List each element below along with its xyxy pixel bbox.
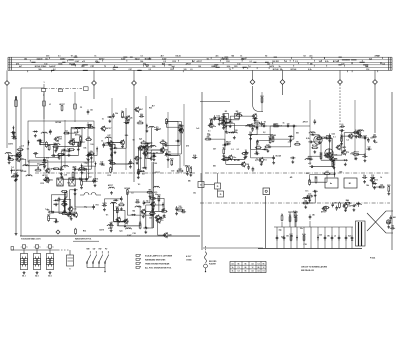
svg-text:8,2k: 8,2k <box>325 61 329 63</box>
svg-text:0.1: 0.1 <box>208 131 211 133</box>
svg-text:a12: a12 <box>288 141 291 143</box>
svg-text:56k: 56k <box>150 143 153 145</box>
svg-text:R12: R12 <box>83 230 86 232</box>
svg-text:22n: 22n <box>50 180 53 182</box>
svg-text:100: 100 <box>39 58 42 60</box>
svg-text:AF117: AF117 <box>185 164 190 167</box>
svg-text:Tr1: Tr1 <box>358 137 361 139</box>
svg-text:R31: R31 <box>170 159 173 161</box>
svg-text:BC148: BC148 <box>125 187 131 190</box>
svg-text:Tr1: Tr1 <box>245 150 248 152</box>
svg-text:Tr1: Tr1 <box>60 139 63 141</box>
svg-text:5p6: 5p6 <box>281 236 284 238</box>
svg-text:18k: 18k <box>312 215 315 217</box>
svg-text:0.1: 0.1 <box>79 145 82 147</box>
svg-text:C18: C18 <box>371 175 374 177</box>
svg-text:470: 470 <box>108 227 111 230</box>
svg-text:56k: 56k <box>37 141 40 143</box>
svg-text:5p6: 5p6 <box>369 58 372 60</box>
svg-text:AF117: AF117 <box>186 62 191 65</box>
svg-text:C47: C47 <box>107 134 110 137</box>
svg-text:0.1: 0.1 <box>279 126 282 128</box>
svg-text:1k: 1k <box>131 118 133 120</box>
svg-text:18k: 18k <box>327 236 330 238</box>
svg-text:AM UNIT: AM UNIT <box>78 169 87 172</box>
svg-text:R31: R31 <box>234 66 237 68</box>
svg-text:1k: 1k <box>251 123 253 125</box>
svg-text:1n5: 1n5 <box>158 129 161 131</box>
svg-text:0,047: 0,047 <box>121 57 126 60</box>
svg-text:T3: T3 <box>229 69 231 71</box>
svg-text:4k7: 4k7 <box>140 108 143 111</box>
svg-text:22n: 22n <box>213 126 216 128</box>
svg-text:AF117: AF117 <box>53 203 58 206</box>
svg-text:BC148: BC148 <box>90 127 96 130</box>
svg-text:T3: T3 <box>19 147 21 149</box>
svg-text:1n5: 1n5 <box>44 63 47 65</box>
svg-text:4k7: 4k7 <box>152 105 155 108</box>
svg-text:100: 100 <box>154 163 157 165</box>
svg-text:86: 86 <box>245 271 247 273</box>
svg-text:0.1: 0.1 <box>333 137 336 139</box>
svg-text:OA79: OA79 <box>269 65 274 68</box>
svg-text:L5: L5 <box>161 220 163 222</box>
svg-text:7,5: 7,5 <box>237 267 239 269</box>
svg-text:56k: 56k <box>182 209 185 211</box>
svg-text:R12: R12 <box>108 175 111 177</box>
svg-text:33p: 33p <box>363 175 366 177</box>
svg-text:12: 12 <box>252 267 254 269</box>
svg-text:M4: M4 <box>188 180 191 183</box>
svg-text:SEE PAGE 4.23: SEE PAGE 4.23 <box>301 269 314 272</box>
svg-text:2,2: 2,2 <box>263 132 266 134</box>
svg-text:M4: M4 <box>213 164 216 167</box>
svg-text:470: 470 <box>46 157 49 160</box>
svg-text:86: 86 <box>258 267 260 269</box>
svg-text:56k: 56k <box>39 69 42 71</box>
svg-text:Tr1: Tr1 <box>264 122 267 124</box>
svg-text:18k: 18k <box>296 142 299 144</box>
svg-text:R31: R31 <box>149 108 152 110</box>
svg-text:b: b <box>27 247 28 249</box>
svg-text:86: 86 <box>238 263 240 265</box>
svg-text:T3: T3 <box>104 66 106 68</box>
svg-text:18k: 18k <box>366 185 369 187</box>
svg-text:S2: S2 <box>53 143 55 145</box>
svg-text:T3: T3 <box>347 152 349 154</box>
svg-text:10n: 10n <box>233 157 236 159</box>
svg-text:BC148: BC148 <box>312 144 318 147</box>
svg-text:M4: M4 <box>310 62 313 65</box>
svg-text:T3: T3 <box>256 159 258 161</box>
svg-text:18k: 18k <box>391 226 394 228</box>
svg-text:18k: 18k <box>83 147 86 149</box>
svg-text:BC148: BC148 <box>56 121 62 124</box>
svg-text:a12: a12 <box>89 177 92 179</box>
svg-text:0,3: 0,3 <box>237 271 239 273</box>
svg-text:CIRCUIT TO NOMENCLATURE: CIRCUIT TO NOMENCLATURE <box>301 266 328 269</box>
svg-text:5p6: 5p6 <box>172 66 175 68</box>
svg-text:6,8k: 6,8k <box>307 197 311 199</box>
svg-text:5p6: 5p6 <box>374 142 377 144</box>
svg-text:1k: 1k <box>232 267 234 269</box>
svg-text:AM AERIAL: AM AERIAL <box>12 169 24 172</box>
svg-text:100: 100 <box>142 174 145 176</box>
svg-text:1: 1 <box>43 82 44 84</box>
svg-text:120: 120 <box>380 184 383 186</box>
svg-text:T3: T3 <box>257 145 259 147</box>
svg-text:100: 100 <box>249 132 252 134</box>
svg-text:100: 100 <box>286 236 289 238</box>
svg-text:33p: 33p <box>146 200 149 202</box>
svg-text:0.1: 0.1 <box>249 61 252 63</box>
svg-text:LW: LW <box>93 249 96 251</box>
svg-text:100: 100 <box>152 66 155 68</box>
svg-text:AF117: AF117 <box>99 57 104 60</box>
svg-text:R31: R31 <box>306 173 309 175</box>
svg-text:S2: S2 <box>132 140 134 142</box>
svg-text:T3: T3 <box>86 158 88 160</box>
svg-text:AF117: AF117 <box>321 210 326 213</box>
svg-text:M4: M4 <box>87 136 90 139</box>
svg-text:Tr1: Tr1 <box>309 157 312 159</box>
svg-text:M4: M4 <box>393 216 396 219</box>
svg-text:C18: C18 <box>366 69 369 71</box>
svg-text:S2: S2 <box>265 56 267 58</box>
svg-text:8,2k: 8,2k <box>308 69 312 71</box>
svg-text:22n: 22n <box>314 176 317 178</box>
svg-text:10n: 10n <box>45 58 48 60</box>
svg-text:120: 120 <box>184 69 187 71</box>
svg-text:120: 120 <box>90 110 93 112</box>
svg-text:b: b <box>40 247 41 249</box>
svg-text:86: 86 <box>263 263 265 265</box>
svg-text:C18: C18 <box>64 174 67 176</box>
svg-text:1k: 1k <box>102 119 104 121</box>
svg-text:AF117: AF117 <box>106 127 111 130</box>
svg-text:AF117: AF117 <box>155 171 160 174</box>
svg-text:C47: C47 <box>128 68 131 71</box>
svg-text:Tr1: Tr1 <box>11 167 14 169</box>
svg-text:1k: 1k <box>232 271 234 273</box>
svg-text:4k7: 4k7 <box>19 65 22 68</box>
svg-text:56k: 56k <box>339 171 342 173</box>
svg-text:1k: 1k <box>94 56 96 58</box>
svg-text:1/1966: 1/1966 <box>186 260 192 262</box>
svg-text:M1: M1 <box>225 111 228 113</box>
svg-text:7,5: 7,5 <box>262 271 264 273</box>
svg-text:8,2k: 8,2k <box>136 200 139 202</box>
svg-text:120: 120 <box>370 138 373 140</box>
svg-text:470: 470 <box>16 62 19 65</box>
svg-text:10n: 10n <box>305 190 308 192</box>
svg-text:2,2: 2,2 <box>149 69 152 71</box>
svg-text:10n: 10n <box>121 111 124 113</box>
svg-text:0.1: 0.1 <box>58 56 61 58</box>
svg-text:M4: M4 <box>149 189 152 192</box>
svg-text:AF117: AF117 <box>108 184 113 187</box>
svg-text:4k7: 4k7 <box>62 57 65 60</box>
svg-text:OA79: OA79 <box>341 146 346 149</box>
svg-text:56k: 56k <box>47 210 50 212</box>
svg-text:BC148: BC148 <box>333 60 339 63</box>
svg-text:C18: C18 <box>132 233 135 235</box>
svg-text:0,047: 0,047 <box>75 60 80 63</box>
svg-text:8,2k: 8,2k <box>211 66 215 68</box>
svg-text:M4: M4 <box>231 55 234 58</box>
svg-text:8,2k: 8,2k <box>293 211 297 213</box>
svg-text:0,3: 0,3 <box>257 263 259 265</box>
svg-text:R31: R31 <box>276 61 279 63</box>
svg-text:L5: L5 <box>131 193 133 195</box>
svg-text:M4: M4 <box>133 210 136 213</box>
svg-text:Tr1: Tr1 <box>106 214 109 216</box>
svg-text:C18: C18 <box>47 214 50 216</box>
svg-text:120: 120 <box>341 63 344 65</box>
svg-text:M4: M4 <box>296 132 299 135</box>
svg-text:18k: 18k <box>95 178 98 180</box>
svg-text:470: 470 <box>45 176 48 179</box>
svg-text:1k: 1k <box>281 214 283 216</box>
svg-text:Tr1: Tr1 <box>248 66 251 68</box>
svg-text:S2: S2 <box>65 131 67 133</box>
svg-text:PLAYER: PLAYER <box>209 263 216 266</box>
svg-text:120: 120 <box>287 124 290 126</box>
svg-text:0,047: 0,047 <box>121 116 126 119</box>
svg-text:Tr1: Tr1 <box>71 56 74 58</box>
svg-text:BC148: BC148 <box>74 141 80 144</box>
svg-text:BC148: BC148 <box>35 65 41 68</box>
svg-text:1n5: 1n5 <box>382 63 385 65</box>
svg-text:VOLTAGES MEAS. 20k/V: VOLTAGES MEAS. 20k/V <box>21 238 42 241</box>
svg-text:6,8k: 6,8k <box>162 144 166 146</box>
svg-text:TRIMS SHOWN FROM REAR: TRIMS SHOWN FROM REAR <box>145 263 170 266</box>
svg-text:Tr1: Tr1 <box>264 160 267 162</box>
svg-text:18k: 18k <box>49 131 52 133</box>
svg-text:C3: C3 <box>80 107 82 109</box>
svg-text:SCALE LAMPS 6V 0.1A POWER: SCALE LAMPS 6V 0.1A POWER <box>145 255 173 258</box>
svg-text:100: 100 <box>112 203 115 205</box>
svg-text:1k: 1k <box>380 177 382 179</box>
svg-text:AF117: AF117 <box>74 131 79 134</box>
svg-text:5p6: 5p6 <box>119 231 122 233</box>
svg-text:Tr1: Tr1 <box>289 215 292 217</box>
svg-text:1n5: 1n5 <box>235 114 238 116</box>
svg-text:L5: L5 <box>351 240 353 242</box>
svg-text:2,2: 2,2 <box>295 61 298 63</box>
svg-text:4.23.7: 4.23.7 <box>186 255 191 258</box>
svg-text:470: 470 <box>186 145 189 148</box>
svg-text:a12: a12 <box>308 163 311 165</box>
svg-text:1n5: 1n5 <box>21 145 24 147</box>
svg-text:86: 86 <box>245 263 247 265</box>
svg-text:18k: 18k <box>90 151 93 153</box>
svg-text:OA79: OA79 <box>8 143 13 146</box>
svg-text:a12: a12 <box>137 58 140 60</box>
svg-text:KW: KW <box>99 249 102 251</box>
svg-text:BC148: BC148 <box>273 68 279 71</box>
svg-text:R12: R12 <box>226 61 229 63</box>
svg-text:AF117: AF117 <box>223 57 228 60</box>
svg-text:Tr1: Tr1 <box>138 184 141 186</box>
svg-text:56k: 56k <box>115 113 118 115</box>
svg-text:0.1: 0.1 <box>231 149 234 151</box>
svg-text:2,2: 2,2 <box>139 120 142 122</box>
svg-text:Tr1: Tr1 <box>206 58 209 60</box>
svg-text:100: 100 <box>100 162 103 164</box>
svg-text:R31: R31 <box>222 114 225 116</box>
svg-text:R12: R12 <box>116 209 119 211</box>
svg-text:Tr1: Tr1 <box>375 180 378 182</box>
svg-text:Tr1: Tr1 <box>110 140 113 142</box>
svg-text:22n: 22n <box>155 194 158 196</box>
svg-text:1n5: 1n5 <box>196 128 199 130</box>
svg-text:a: a <box>21 247 22 249</box>
svg-text:R31: R31 <box>170 69 173 71</box>
svg-text:BC148: BC148 <box>11 176 17 179</box>
svg-text:T3: T3 <box>84 163 86 165</box>
svg-text:AF117: AF117 <box>353 151 358 154</box>
svg-text:AF117: AF117 <box>303 120 308 123</box>
svg-text:C18: C18 <box>101 165 104 167</box>
svg-text:0.1: 0.1 <box>237 149 240 151</box>
svg-text:10n: 10n <box>168 152 171 154</box>
svg-text:100: 100 <box>319 61 322 63</box>
svg-text:18k: 18k <box>373 134 376 136</box>
svg-text:6,8k: 6,8k <box>193 155 196 157</box>
svg-text:4k7: 4k7 <box>213 148 216 151</box>
svg-text:8,2k: 8,2k <box>177 56 181 58</box>
svg-text:1k: 1k <box>61 63 63 65</box>
svg-text:BC148: BC148 <box>291 68 297 71</box>
svg-text:1k: 1k <box>143 140 145 142</box>
svg-text:8,2k: 8,2k <box>306 138 310 140</box>
svg-text:AF117: AF117 <box>50 167 55 170</box>
svg-text:4k7: 4k7 <box>334 157 337 160</box>
svg-text:8,2k: 8,2k <box>125 135 129 137</box>
svg-text:100: 100 <box>90 144 93 146</box>
svg-text:C47: C47 <box>160 151 163 154</box>
svg-text:10n: 10n <box>256 121 259 123</box>
svg-text:AF117: AF117 <box>59 103 64 106</box>
svg-text:BC148: BC148 <box>160 216 166 219</box>
svg-text:P 84.4: P 84.4 <box>370 257 375 260</box>
svg-text:470: 470 <box>72 213 75 216</box>
svg-text:M4: M4 <box>273 123 276 126</box>
svg-text:B3.1: B3.1 <box>48 276 52 278</box>
svg-text:T3: T3 <box>120 202 122 204</box>
svg-text:a: a <box>34 247 35 249</box>
svg-text:BC148: BC148 <box>276 154 281 157</box>
svg-text:Tr1: Tr1 <box>350 153 353 155</box>
svg-text:Tr1: Tr1 <box>87 173 90 175</box>
svg-text:R12: R12 <box>14 174 17 176</box>
svg-text:C18: C18 <box>80 179 83 181</box>
svg-text:18k: 18k <box>24 58 27 60</box>
svg-text:0,047: 0,047 <box>162 57 167 60</box>
svg-text:R31: R31 <box>96 205 99 207</box>
svg-text:WAVEBAND SWITCHES: WAVEBAND SWITCHES <box>145 259 166 262</box>
svg-text:a12: a12 <box>110 222 113 224</box>
svg-text:a12: a12 <box>82 61 85 63</box>
svg-text:8,2k: 8,2k <box>227 66 231 68</box>
svg-text:120: 120 <box>235 130 238 132</box>
svg-text:1k: 1k <box>283 123 285 125</box>
svg-text:1k: 1k <box>144 143 146 145</box>
svg-text:86: 86 <box>245 267 247 269</box>
svg-text:a12: a12 <box>326 171 329 173</box>
svg-text:10n: 10n <box>112 69 115 71</box>
svg-text:C47: C47 <box>52 65 55 68</box>
svg-text:M4: M4 <box>291 234 294 237</box>
svg-text:B1: B1 <box>349 183 351 185</box>
svg-text:22n: 22n <box>215 56 218 58</box>
svg-text:L5: L5 <box>347 139 349 141</box>
svg-text:1k: 1k <box>354 159 356 161</box>
svg-text:ALL POS. SHOWN IN MW POS.: ALL POS. SHOWN IN MW POS. <box>145 267 172 270</box>
svg-text:0.1: 0.1 <box>141 56 144 58</box>
svg-text:120: 120 <box>169 235 172 237</box>
svg-text:M4: M4 <box>162 139 165 142</box>
svg-text:2,2: 2,2 <box>377 56 380 58</box>
svg-text:C18: C18 <box>303 244 306 246</box>
svg-text:1k: 1k <box>279 66 281 68</box>
svg-text:BC148: BC148 <box>234 159 240 162</box>
svg-text:B2.1: B2.1 <box>35 276 39 278</box>
svg-text:L5: L5 <box>285 61 287 63</box>
svg-text:C47: C47 <box>348 205 351 208</box>
svg-text:B1.1: B1.1 <box>22 276 26 278</box>
svg-text:R12: R12 <box>324 138 327 140</box>
svg-text:5p6: 5p6 <box>139 138 142 140</box>
svg-text:5p6: 5p6 <box>331 160 334 162</box>
svg-text:AF117: AF117 <box>226 140 231 143</box>
svg-text:1n5: 1n5 <box>43 66 46 68</box>
svg-text:1n5: 1n5 <box>308 194 311 196</box>
svg-text:1k: 1k <box>343 204 345 206</box>
svg-text:R12: R12 <box>260 96 263 98</box>
svg-text:6,8k: 6,8k <box>67 149 70 151</box>
svg-text:0.1: 0.1 <box>27 148 30 150</box>
svg-text:a: a <box>47 247 48 249</box>
svg-text:100: 100 <box>171 171 174 173</box>
svg-text:MW: MW <box>87 249 90 251</box>
svg-text:R31: R31 <box>387 185 390 187</box>
svg-text:1n5: 1n5 <box>368 147 371 149</box>
svg-text:R12: R12 <box>173 61 176 63</box>
svg-text:AF117: AF117 <box>197 60 202 63</box>
svg-text:470: 470 <box>46 55 49 58</box>
svg-text:10n: 10n <box>153 156 156 158</box>
svg-text:12: 12 <box>263 267 265 269</box>
svg-text:8,2k: 8,2k <box>332 134 335 136</box>
svg-text:S2: S2 <box>303 56 305 58</box>
svg-text:WAVE SWITCH POS.: WAVE SWITCH POS. <box>75 238 92 241</box>
svg-text:0.1: 0.1 <box>104 143 107 145</box>
svg-text:10n: 10n <box>193 192 196 194</box>
svg-text:M4: M4 <box>304 199 307 202</box>
svg-text:33p: 33p <box>387 220 390 222</box>
svg-text:L5: L5 <box>334 236 336 238</box>
svg-text:0,047: 0,047 <box>127 234 132 237</box>
svg-text:4k7: 4k7 <box>161 55 164 58</box>
svg-text:10n: 10n <box>300 228 303 230</box>
svg-text:R31: R31 <box>335 202 338 204</box>
svg-text:b: b <box>53 247 54 249</box>
svg-text:1n5: 1n5 <box>237 63 240 65</box>
svg-text:L5: L5 <box>190 69 192 71</box>
svg-text:120: 120 <box>319 235 322 237</box>
